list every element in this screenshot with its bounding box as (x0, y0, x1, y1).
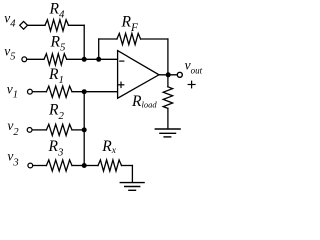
wire v4 to R4 (28, 24, 45, 26)
junction v3 node (82, 163, 87, 168)
wire v3 to R3 (33, 165, 46, 167)
junction v1 node (82, 89, 87, 94)
wire op-amp output (159, 74, 176, 76)
wire R4 to corner (69, 24, 85, 26)
op-amp inverting input marker (120, 60, 124, 62)
junction v4/v5 (82, 57, 87, 62)
wire R5 to op-amp inverting input (67, 58, 118, 60)
wire Rx to corner (122, 165, 133, 167)
svg-text:Rx: Rx (101, 138, 116, 156)
svg-text:R5: R5 (50, 34, 66, 54)
wire R1 to op-amp noninverting input (72, 91, 118, 93)
resistor RF (117, 33, 141, 44)
op-amp noninverting input marker (118, 82, 124, 87)
terminal v1 (28, 89, 33, 94)
junction inverting node (96, 57, 101, 62)
wire Rload to ground 1 (167, 108, 169, 128)
terminal v5 (22, 57, 27, 62)
resistor Rload (163, 87, 172, 109)
svg-text:Rload: Rload (131, 93, 157, 110)
svg-text:v4: v4 (4, 10, 16, 29)
junction v2 node (82, 127, 87, 132)
wire RF down to output node (167, 39, 169, 75)
wire v4 branch vertical (83, 25, 85, 59)
svg-text:v2: v2 (7, 118, 19, 138)
wire v1 to R1 (33, 91, 47, 93)
ground 2 (120, 183, 144, 191)
svg-text:v1: v1 (7, 81, 18, 100)
wire RF right (141, 38, 168, 40)
resistor R1 (46, 86, 72, 97)
svg-text:R4: R4 (49, 1, 65, 21)
svg-text:R1: R1 (48, 66, 64, 86)
wire R3 to bus (72, 165, 84, 167)
wire bus to Rx (84, 165, 98, 167)
wire down to ground 2 (131, 166, 133, 183)
terminal vout (177, 72, 182, 77)
svg-text:v5: v5 (4, 44, 15, 63)
wire inverting node up to RF (98, 39, 100, 59)
resistor R5 (44, 54, 67, 65)
wire RF left (99, 38, 117, 40)
wire R2 to bus (72, 129, 84, 131)
wire output to Rload (167, 75, 169, 87)
resistor R3 (46, 160, 72, 171)
wire v2 to R2 (32, 129, 46, 131)
resistor R2 (46, 124, 72, 135)
resistor Rx (98, 160, 122, 171)
svg-text:RF: RF (121, 14, 139, 34)
svg-text:v3: v3 (7, 148, 18, 168)
terminal v2 (27, 127, 32, 132)
svg-text:vout: vout (185, 58, 203, 76)
terminal v3 (28, 163, 33, 168)
resistor R4 (45, 20, 69, 31)
wire v5 to R5 (27, 58, 44, 60)
op-amp U1 (118, 51, 159, 99)
svg-text:R3: R3 (48, 138, 64, 159)
polarity plus (188, 81, 195, 88)
ground 1 (155, 129, 180, 137)
junction output node (166, 72, 171, 77)
wire vertical bus v1-v3 (83, 92, 85, 166)
svg-text:R2: R2 (48, 102, 64, 123)
terminal v4 (diamond) (20, 21, 28, 29)
